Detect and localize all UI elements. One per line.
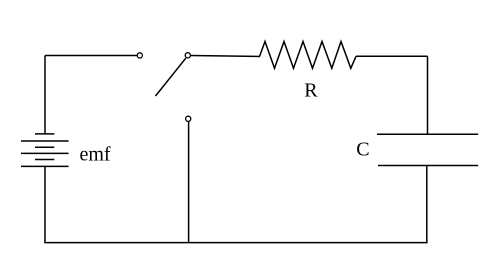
wire middle vertical from switch terminal 3 — [188, 121, 190, 242]
battery emf plate short 2 — [35, 146, 54, 148]
resistor R — [260, 42, 357, 69]
capacitor C bottom plate — [378, 165, 478, 167]
battery emf plate long 2 — [21, 152, 69, 154]
wire left vertical upper — [44, 56, 46, 134]
switch blade (open, thrown down-left) — [156, 58, 186, 96]
bottom wire — [44, 242, 427, 244]
svg-text:R: R — [304, 79, 318, 101]
wire capacitor to bottom wire — [426, 166, 428, 244]
wire top-left horizontal — [45, 55, 137, 57]
battery emf plate long 3 — [21, 165, 69, 167]
switch pole circle 2 — [185, 53, 190, 58]
wire left vertical lower — [44, 166, 46, 242]
switch terminal circle 1 — [137, 53, 142, 58]
wire right vertical to capacitor — [427, 56, 429, 134]
capacitor C top plate — [377, 133, 478, 135]
svg-text:emf: emf — [80, 144, 111, 166]
wire resistor to top-right corner — [356, 55, 428, 57]
svg-text:C: C — [356, 138, 369, 160]
switch terminal circle 3 — [186, 116, 191, 121]
battery emf plate short 1 — [35, 133, 54, 135]
battery emf plate long 1 — [21, 140, 69, 142]
battery emf plate short 3 — [35, 159, 54, 161]
wire switch pole to resistor — [190, 56, 260, 57]
